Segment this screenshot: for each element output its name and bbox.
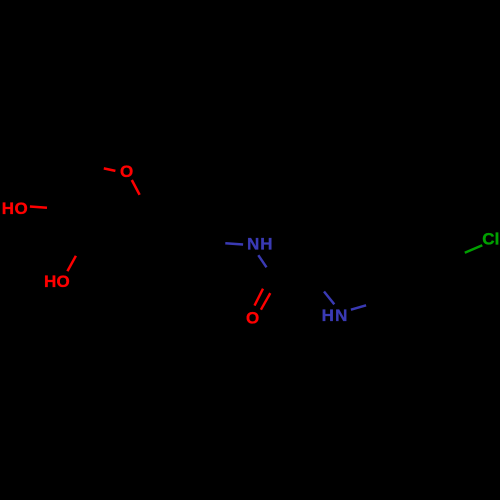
svg-text:O: O <box>120 162 133 181</box>
bond O1-C8a half-bond <box>132 180 140 195</box>
svg-text:N: N <box>247 235 259 254</box>
svg-text:H: H <box>260 235 272 254</box>
svg-text:O: O <box>14 199 27 218</box>
carbonyl double bond C=O line 1 <box>255 289 264 306</box>
svg-text:l: l <box>495 230 500 249</box>
bond C2-O1 half-bond <box>104 168 116 171</box>
svg-text:H: H <box>2 199 14 218</box>
bond N1-C7a of indole half-bond <box>351 305 366 309</box>
svg-text:H: H <box>44 272 56 291</box>
svg-text:O: O <box>56 272 69 291</box>
svg-text:H: H <box>322 306 334 325</box>
bond C4-OH half-bond <box>30 207 47 208</box>
svg-text:N: N <box>335 306 347 325</box>
bond C3-OH half-bond <box>67 256 76 271</box>
bond N1-C2 of indole half-bond <box>324 292 334 305</box>
bond N-C(=O) amide half-bond <box>258 255 266 267</box>
bond C5-Cl half-bond <box>465 245 483 253</box>
svg-text:C: C <box>482 230 494 249</box>
carbonyl double bond C=O line 2 <box>261 293 270 310</box>
bond C(aryl)-N amide half-bond <box>225 243 243 244</box>
svg-text:O: O <box>246 309 259 328</box>
